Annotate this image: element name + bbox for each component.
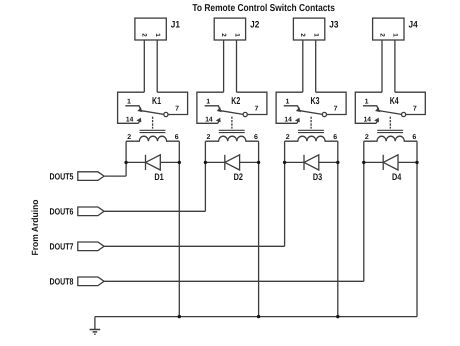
port tag DOUT6 xyxy=(78,207,104,216)
connector J3 refdes label xyxy=(329,20,338,31)
relay K1 refdes label xyxy=(152,96,161,107)
connector J1 pin number 2 xyxy=(141,33,148,37)
relay K1 pin 14 arrowhead xyxy=(138,119,141,122)
relay K2 pin number 7 xyxy=(254,105,258,112)
connector J4 xyxy=(373,18,404,40)
junction: K3 coil pin 6 on ground bus xyxy=(336,315,339,318)
relay K3 pin 1 arrowhead xyxy=(297,108,300,111)
relay K3 armature plate (double bar) xyxy=(298,129,324,131)
ground symbol bottom bar xyxy=(94,333,95,335)
relay K4 pin number 7 xyxy=(413,105,417,112)
wire coil pin 6 down to ground bus xyxy=(258,141,260,316)
wire coil pin 2 down to DOUT5 row xyxy=(125,141,127,176)
wire diode D4 anode to right vertical xyxy=(398,161,417,163)
svg-text:14: 14 xyxy=(205,116,212,123)
wire ground bus xyxy=(95,316,417,318)
relay K2 coil xyxy=(205,136,258,141)
relay K2 pin 1 stub xyxy=(205,106,220,110)
relay K1 pin number 7 xyxy=(175,105,179,112)
wire relay K3 pin 14 connection (top rail / left edge / bottom lead) xyxy=(276,92,303,123)
svg-text:K1: K1 xyxy=(152,96,161,107)
junction: diode D1 cathode / coil pin2 node xyxy=(124,161,127,164)
relay K3 coil xyxy=(285,136,338,141)
relay K1 coil xyxy=(126,136,179,141)
svg-text:D4: D4 xyxy=(392,172,402,183)
relay K3 pin number 14 xyxy=(284,116,291,123)
relay K4 pin 14 arrowhead xyxy=(376,119,379,122)
svg-text:7: 7 xyxy=(413,105,417,112)
relay K2 refdes label xyxy=(231,96,240,107)
relay K2 armature plate lower bar xyxy=(219,132,245,134)
relay K3 armature (common contact arm) xyxy=(300,111,322,115)
relay K4 pin 14 arrow xyxy=(376,121,377,124)
wire diode D1 anode to right vertical xyxy=(160,161,179,163)
svg-text:DOUT7: DOUT7 xyxy=(50,242,74,252)
relay K3 pin 14 arrowhead xyxy=(296,119,299,122)
svg-text:1: 1 xyxy=(233,33,240,37)
relay K1 armature plate lower bar xyxy=(140,132,166,134)
wire coil pin 2 down to DOUT6 row xyxy=(204,141,206,211)
svg-text:6: 6 xyxy=(333,134,337,141)
svg-text:K4: K4 xyxy=(390,96,399,107)
wire relay K4 pin 14 connection (top rail / left edge / bottom lead) xyxy=(355,92,382,123)
wire J2 pin 1 to relay K2 pin 7 path xyxy=(236,40,238,92)
connector J3 pin number 2 xyxy=(299,33,306,37)
relay K2 pin number 14 xyxy=(205,116,212,123)
connector J2 xyxy=(214,18,245,40)
svg-text:D2: D2 xyxy=(234,172,243,183)
relay K4 pin 1 arrowhead xyxy=(376,108,379,111)
svg-text:2: 2 xyxy=(141,33,148,37)
svg-text:7: 7 xyxy=(175,105,179,112)
relay K1 throw contact circle xyxy=(164,112,168,116)
svg-text:From Arduino: From Arduino xyxy=(30,199,40,255)
diode D4 xyxy=(383,155,398,170)
svg-text:D1: D1 xyxy=(154,172,164,183)
wire DOUT8 to relay K4 coil xyxy=(104,280,364,282)
svg-text:2: 2 xyxy=(286,134,290,141)
relay K1 pin number 1 xyxy=(127,99,131,106)
junction: diode D1 anode / coil pin6 node xyxy=(178,161,181,164)
diode D4 cathode bar xyxy=(382,155,384,170)
relay K1 pin 14 arrow xyxy=(139,121,140,124)
connector J2 pin number 1 xyxy=(233,33,240,37)
connector J3 pin number 1 xyxy=(313,33,320,37)
relay K3 pin number 7 xyxy=(334,105,338,112)
relay K3 pin 14 arrow xyxy=(297,121,298,124)
wire DOUT7 to relay K3 coil xyxy=(104,245,285,247)
wire DOUT5 to relay K1 coil xyxy=(104,175,126,177)
wire diode D1 cathode to left vertical xyxy=(126,161,145,163)
wire J2 pin 2 to relay K2 pin 14 path xyxy=(223,40,225,92)
relay K1 armature (common contact arm) xyxy=(141,111,163,115)
wire coil pin 2 down to DOUT8 row xyxy=(363,141,365,281)
relay K1 coil pin number 6 xyxy=(175,134,179,141)
svg-text:6: 6 xyxy=(175,134,179,141)
relay K2 mechanical link (dashed) xyxy=(231,117,233,129)
svg-text:1: 1 xyxy=(154,33,161,37)
relay K4 coil pin number 6 xyxy=(412,134,416,141)
connector J2 pin number 2 xyxy=(220,33,227,37)
relay K4 coil xyxy=(364,136,417,141)
ground symbol xyxy=(90,329,101,331)
relay K3 mechanical link (dashed) xyxy=(310,117,312,129)
wire J1 pin 2 to relay K1 pin 14 path xyxy=(143,40,145,92)
wire J3 pin 2 to relay K3 pin 14 path xyxy=(302,40,304,92)
svg-text:14: 14 xyxy=(364,116,371,123)
svg-text:1: 1 xyxy=(365,99,369,106)
svg-text:1: 1 xyxy=(285,99,289,106)
svg-text:1: 1 xyxy=(127,99,131,106)
port tag DOUT5 xyxy=(78,172,104,181)
wire relay K4 pin 7 connection (lead / right edge / top rail) xyxy=(395,92,425,114)
connector J1 pin number 1 xyxy=(154,33,161,37)
svg-text:1: 1 xyxy=(206,99,210,106)
svg-text:To Remote Control Switch Conta: To Remote Control Switch Contacts xyxy=(192,3,335,14)
connector J4 pin number 2 xyxy=(378,33,385,37)
wire diode D2 cathode to left vertical xyxy=(205,161,224,163)
relay K4 mechanical link (dashed) xyxy=(389,117,391,129)
svg-text:J4: J4 xyxy=(409,20,419,31)
wire coil pin 2 down to DOUT7 row xyxy=(284,141,286,246)
relay K1 coil pin number 2 xyxy=(127,134,131,141)
svg-text:6: 6 xyxy=(412,134,416,141)
svg-text:7: 7 xyxy=(254,105,258,112)
svg-text:1: 1 xyxy=(392,33,399,37)
relay K4 armature plate lower bar xyxy=(377,132,403,134)
diode D3 refdes label xyxy=(313,172,322,183)
wire relay K2 pin 14 connection (top rail / left edge / bottom lead) xyxy=(197,92,224,123)
diode D1 cathode bar xyxy=(145,155,147,170)
wire ground stem xyxy=(94,317,96,330)
junction: diode D4 anode / coil pin6 node xyxy=(415,161,418,164)
relay K4 refdes label xyxy=(390,96,399,107)
diode D2 cathode bar xyxy=(224,155,226,170)
svg-text:2: 2 xyxy=(127,134,131,141)
svg-text:2: 2 xyxy=(365,134,369,141)
wire relay K2 pin 7 connection (lead / right edge / top rail) xyxy=(237,92,267,114)
svg-text:K2: K2 xyxy=(231,96,240,107)
relay K2 pin 14 arrow xyxy=(218,121,219,124)
relay K3 coil pin number 2 xyxy=(286,134,290,141)
relay K3 throw contact circle xyxy=(322,112,326,116)
relay K2 coil pin number 2 xyxy=(207,134,211,141)
diode D1 refdes label xyxy=(154,172,164,183)
svg-text:2: 2 xyxy=(220,33,227,37)
relay K1 pin 1 arrowhead xyxy=(139,108,142,111)
connector J1 xyxy=(135,18,166,40)
svg-text:K3: K3 xyxy=(311,96,320,107)
wire DOUT6 to relay K2 coil xyxy=(104,210,205,212)
wire relay K3 pin 7 connection (lead / right edge / top rail) xyxy=(316,92,346,114)
relay K1 armature plate (double bar) xyxy=(140,129,166,131)
svg-text:2: 2 xyxy=(299,33,306,37)
relay K3 refdes label xyxy=(311,96,320,107)
diode D3 cathode bar xyxy=(303,155,305,170)
diode D2 xyxy=(225,155,240,170)
svg-text:J2: J2 xyxy=(250,20,259,31)
relay K2 throw contact circle xyxy=(243,112,247,116)
connector J4 refdes label xyxy=(409,20,419,31)
wire J4 pin 2 to relay K4 pin 14 path xyxy=(381,40,383,92)
connector J2 refdes label xyxy=(250,20,259,31)
junction: diode D4 cathode / coil pin2 node xyxy=(362,161,365,164)
wire diode D3 cathode to left vertical xyxy=(285,161,304,163)
relay K4 armature (common contact arm) xyxy=(379,111,401,115)
svg-text:6: 6 xyxy=(254,134,258,141)
svg-text:D3: D3 xyxy=(313,172,322,183)
wire coil pin 6 down to ground bus xyxy=(416,141,418,316)
relay K4 pin number 1 xyxy=(365,99,369,106)
relay K2 armature plate (double bar) xyxy=(219,129,245,131)
relay K3 pin 1 stub xyxy=(284,106,299,110)
svg-text:1: 1 xyxy=(313,33,320,37)
svg-text:J1: J1 xyxy=(171,20,181,31)
connector J3 xyxy=(293,18,324,40)
relay K1 pin 1 stub xyxy=(125,106,140,110)
svg-text:DOUT6: DOUT6 xyxy=(50,207,74,217)
wire relay K1 pin 7 connection (lead / right edge / top rail) xyxy=(157,92,187,114)
diode D1 xyxy=(146,155,161,170)
relay K3 coil pin number 6 xyxy=(333,134,337,141)
relay K4 pin 1 stub xyxy=(363,106,378,110)
junction: diode D2 cathode / coil pin2 node xyxy=(204,161,207,164)
port tag DOUT8 xyxy=(78,277,104,286)
svg-text:DOUT8: DOUT8 xyxy=(50,277,74,287)
relay K2 pin 1 arrowhead xyxy=(218,108,221,111)
relay K4 armature plate (double bar) xyxy=(377,129,403,131)
relay K2 armature (common contact arm) xyxy=(221,111,243,115)
wire diode D3 anode to right vertical xyxy=(319,161,338,163)
relay K4 coil pin number 2 xyxy=(365,134,369,141)
junction: diode D3 cathode / coil pin2 node xyxy=(283,161,286,164)
wire diode D4 cathode to left vertical xyxy=(364,161,383,163)
junction: K1 coil pin 6 on ground bus xyxy=(178,315,181,318)
wire coil pin 6 down to ground bus xyxy=(337,141,339,316)
relay K3 armature plate lower bar xyxy=(298,132,324,134)
diode D3 xyxy=(304,155,319,170)
wire J3 pin 1 to relay K3 pin 7 path xyxy=(315,40,317,92)
svg-text:14: 14 xyxy=(126,116,133,123)
svg-text:DOUT5: DOUT5 xyxy=(50,171,74,181)
connector J4 pin number 1 xyxy=(392,33,399,37)
wire relay K1 pin 14 connection (top rail / left edge / bottom lead) xyxy=(118,92,145,123)
relay K2 coil pin number 6 xyxy=(254,134,258,141)
svg-text:14: 14 xyxy=(284,116,291,123)
junction: K2 coil pin 6 on ground bus xyxy=(257,315,260,318)
relay K4 throw contact circle xyxy=(402,112,406,116)
wire diode D2 anode to right vertical xyxy=(240,161,259,163)
junction: diode D3 anode / coil pin6 node xyxy=(336,161,339,164)
wire coil pin 6 down to ground bus xyxy=(178,141,180,316)
relay K3 pin number 1 xyxy=(285,99,289,106)
relay K2 pin 14 arrowhead xyxy=(217,119,220,122)
svg-text:J3: J3 xyxy=(329,20,338,31)
wire J4 pin 1 to relay K4 pin 7 path xyxy=(394,40,396,92)
relay K2 pin number 1 xyxy=(206,99,210,106)
relay K4 pin number 14 xyxy=(364,116,371,123)
svg-text:2: 2 xyxy=(378,33,385,37)
junction: diode D2 anode / coil pin6 node xyxy=(257,161,260,164)
svg-text:7: 7 xyxy=(334,105,338,112)
diode D2 refdes label xyxy=(234,172,243,183)
port tag DOUT7 xyxy=(78,242,104,251)
relay K1 pin number 14 xyxy=(126,116,133,123)
wire J1 pin 1 to relay K1 pin 7 path xyxy=(156,40,158,92)
svg-text:2: 2 xyxy=(207,134,211,141)
relay K1 mechanical link (dashed) xyxy=(152,117,154,129)
ground symbol middle bar xyxy=(93,331,98,333)
diode D4 refdes label xyxy=(392,172,402,183)
connector J1 refdes label xyxy=(171,20,181,31)
